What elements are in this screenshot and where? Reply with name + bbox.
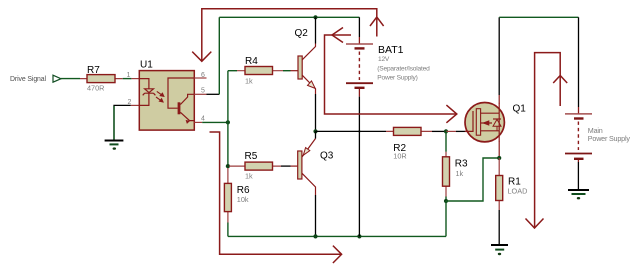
node pin4 (226, 120, 230, 124)
node Q2/Q3 output (313, 129, 317, 133)
annotation arrow loop C (bottom) (210, 132, 342, 263)
wire R5 to Q3 base (281, 165, 291, 167)
svg-text:2: 2 (128, 99, 132, 106)
svg-text:10k: 10k (237, 195, 249, 204)
wire R2 to gate node (432, 130, 446, 132)
annotation arrow loop A (top left) (192, 9, 383, 62)
svg-text:6: 6 (201, 72, 205, 79)
node rail-BAT1 (357, 234, 361, 238)
annotation arrow loop B (BAT1 to gate) (325, 28, 457, 123)
mosfet Q1 (465, 103, 526, 142)
svg-text:R4: R4 (245, 56, 258, 67)
svg-text:1k: 1k (245, 77, 253, 86)
wire node to Q1 gate (446, 130, 456, 132)
battery Main Power Supply (565, 107, 630, 162)
svg-text:1k: 1k (245, 172, 253, 181)
svg-text:R5: R5 (245, 151, 258, 162)
transistor Q3 (291, 139, 334, 196)
node source/R1 (497, 156, 501, 160)
svg-text:Q3: Q3 (320, 150, 334, 161)
U1 pin stubs 6,5,4 (194, 78, 206, 122)
wire Q2 emitter down (315, 94, 317, 131)
wire R3 to bottom node (445, 197, 447, 202)
svg-text:1k: 1k (456, 169, 464, 178)
battery BAT1 (346, 17, 430, 96)
wire rail down to main supply (578, 17, 580, 107)
wire pin5 to top rail (207, 93, 220, 95)
resistor R4 (228, 56, 283, 86)
wire R1 to ground (498, 210, 500, 245)
U1 LED (139, 79, 155, 106)
ground (under R1) (491, 245, 508, 255)
wire Q3 emitter to node (315, 131, 317, 138)
node R3 bottom (444, 199, 448, 203)
wire top rail (right) (499, 16, 578, 18)
svg-text:1: 1 (127, 72, 131, 79)
wire R4 to Q2 base (283, 70, 291, 72)
wire column R4-R5 (227, 71, 229, 166)
wire terminal to R7 (61, 78, 80, 80)
node rail-Q2 (313, 15, 317, 19)
resistor R3 (443, 131, 469, 196)
svg-text:Power Supply): Power Supply) (377, 74, 417, 81)
svg-text:U1: U1 (140, 60, 153, 71)
ground (left) (105, 141, 124, 150)
pin 1 (131, 78, 139, 80)
wire Q2 collector to rail (315, 17, 317, 43)
svg-text:Drive Signal: Drive Signal (10, 76, 47, 83)
svg-text:BAT1: BAT1 (378, 44, 404, 56)
resistor R1 (496, 158, 528, 210)
wire U1 pin2 to ground (114, 105, 131, 140)
wire bottom rail (228, 235, 446, 237)
transistor Q2 (291, 28, 316, 94)
svg-text:R3: R3 (455, 158, 468, 169)
wire node down to rail (445, 201, 447, 236)
svg-text:470R: 470R (87, 83, 104, 92)
svg-text:10R: 10R (393, 152, 406, 161)
wire main supply to ground (577, 162, 579, 190)
svg-text:12V: 12V (378, 56, 390, 63)
svg-text:(Separater/Isolated: (Separater/Isolated (377, 65, 430, 72)
resistor R7 (80, 65, 123, 92)
node artifact at BAT1/output crossing (358, 130, 360, 132)
node gate/R3 (444, 129, 448, 133)
svg-text:Q1: Q1 (513, 104, 527, 115)
wire Q1 drain to top rail (498, 17, 500, 95)
wire node to source loop (446, 158, 499, 201)
node rail-Q3 (313, 234, 317, 238)
terminal Drive Signal (10, 75, 61, 83)
svg-text:4: 4 (201, 116, 205, 123)
wire top rail (left) (219, 16, 359, 18)
wire Q3 collector to bottom rail (315, 195, 317, 236)
wire pin4 to node (202, 121, 228, 123)
ground (main supply) (568, 190, 589, 199)
svg-text:R7: R7 (87, 65, 100, 76)
optocoupler U1 body (139, 60, 194, 131)
resistor R2 (386, 127, 432, 160)
svg-text:Power Supply: Power Supply (588, 134, 631, 143)
wire BAT1 to bottom rail (358, 97, 360, 237)
wire output node to R2 (316, 130, 387, 132)
svg-text:5: 5 (201, 88, 205, 95)
svg-text:Q2: Q2 (295, 28, 309, 39)
resistor R5 (229, 151, 281, 181)
node R5 (226, 164, 230, 168)
annotation arrow loop D (right) (526, 53, 568, 228)
U1 phototransistor (168, 78, 194, 124)
wire R6 to bottom rail (227, 223, 229, 237)
wire Q1 source down (498, 141, 500, 158)
wire R7 to U1 pin1 (123, 78, 132, 80)
resistor R6 (224, 168, 250, 223)
pin 2 (131, 104, 140, 106)
U1 light arrows (156, 91, 164, 102)
svg-text:LOAD: LOAD (508, 187, 528, 196)
